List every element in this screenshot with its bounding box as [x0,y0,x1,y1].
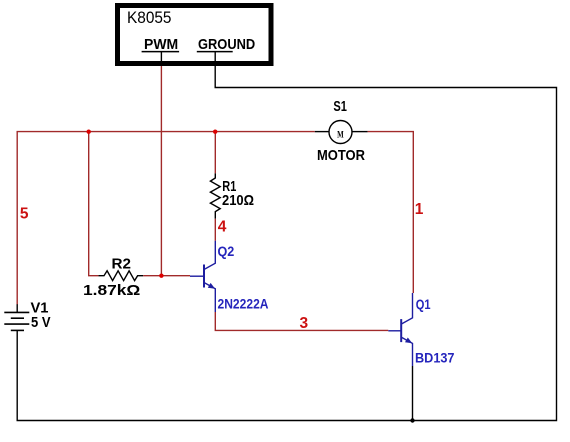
svg-text:M: M [337,129,344,139]
svg-text:GROUND: GROUND [198,36,255,53]
svg-text:1.87kΩ: 1.87kΩ [83,282,140,299]
svg-text:BD137: BD137 [415,350,455,366]
svg-text:PWM: PWM [144,36,178,53]
svg-text:4: 4 [218,219,227,236]
svg-text:MOTOR: MOTOR [317,147,365,164]
svg-text:S1: S1 [333,98,347,115]
svg-text:Q2: Q2 [218,243,235,259]
svg-text:5 V: 5 V [31,314,51,331]
svg-text:210Ω: 210Ω [222,192,254,209]
svg-text:1: 1 [415,201,424,218]
svg-text:K8055: K8055 [127,8,172,27]
svg-text:R2: R2 [112,256,132,273]
svg-text:Q1: Q1 [416,296,431,312]
svg-text:3: 3 [300,315,309,332]
svg-text:5: 5 [20,205,29,222]
svg-text:2N2222A: 2N2222A [218,295,269,311]
